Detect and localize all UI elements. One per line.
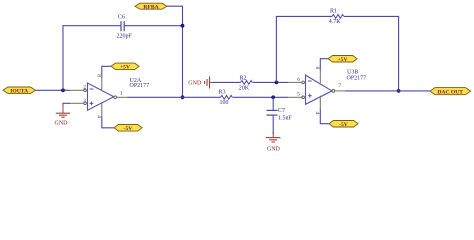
node RFBA-C6 junction [181,24,185,28]
pin 6 circle U3B [302,81,305,84]
plus sign U2A pin3 [90,102,94,106]
power port -5V (U2A) [114,125,142,133]
svg-text:OP2177: OP2177 [347,76,367,82]
svg-text:-5V: -5V [124,126,133,132]
power port +5V (U3B) [328,56,357,63]
svg-text:C7: C7 [278,108,285,114]
wire R1 to output drop [344,16,399,91]
svg-text:1: 1 [120,91,123,97]
pin 7 circle U3B output [332,90,335,93]
svg-text:DAC OUT: DAC OUT [437,89,463,95]
svg-text:RFBA: RFBA [143,4,158,10]
svg-text:4.7K: 4.7K [329,19,342,25]
resistor R1 [332,14,344,18]
minus sign U2A pin2 [90,88,94,90]
pin 3 circle U2A [84,102,87,105]
svg-text:4: 4 [96,115,102,118]
capacitor C6 [121,21,124,31]
pin 5 circle U3B [302,96,305,99]
svg-text:+5V: +5V [337,57,347,63]
svg-text:GND: GND [267,146,281,152]
op-amp U3B [306,75,333,104]
plus sign U3B pin5 [308,94,312,98]
svg-text:GND: GND [188,81,202,87]
svg-text:OP2177: OP2177 [130,83,150,89]
svg-text:1.5nF: 1.5nF [278,116,293,122]
wire U3B pin8 to +5V [319,70,321,83]
wire U2A pin8 to +5V [101,78,103,91]
pin 1 circle U2A output [114,96,117,99]
wire RFBA tag to vertical drop [167,6,183,97]
capacitor C7 [266,97,277,134]
svg-text:IOUTA: IOUTA [10,88,28,94]
power port -5V (U3B) [329,121,358,128]
svg-text:20K: 20K [239,86,250,92]
wire U3B output to DAC OUT [335,90,346,92]
node feedback junction upper [275,81,279,85]
svg-text:R1: R1 [330,8,337,14]
svg-text:7: 7 [339,83,342,89]
port DAC OUT [430,88,471,96]
svg-text:4: 4 [314,112,320,115]
svg-text:5: 5 [297,92,300,98]
port IOUTA [3,87,36,94]
svg-text:100: 100 [220,100,229,106]
node IOUTA junction [61,88,65,92]
svg-text:-5V: -5V [339,122,348,128]
wire U2A output through R3 run [117,96,128,98]
wire R2 to U3B pin6 [253,81,289,83]
wire C6 right side to RFBA vertical [124,25,182,27]
svg-text:R3: R3 [219,89,226,95]
wire GND to R2 [214,81,241,83]
svg-text:C6: C6 [118,15,125,21]
wire U3B pin4 to -5V [319,96,321,109]
ground GND under U2A [56,105,70,118]
svg-text:8: 8 [96,74,102,77]
node RFBA-output junction [181,95,185,99]
svg-text:+5V: +5V [120,65,130,71]
node C7 junction [271,95,275,99]
op-amp U2A [88,83,114,110]
wire U2A pin3 to ground [70,102,84,104]
wire R3 to U3B pin5 [233,96,289,98]
pin 2 circle U2A [84,89,87,92]
ground GND under C7 [266,132,280,142]
svg-text:R2: R2 [240,75,247,81]
resistor R3 [221,95,233,99]
minus sign U3B pin6 [308,80,312,82]
svg-text:220pF: 220pF [117,34,133,40]
svg-text:8: 8 [314,67,320,70]
wire IOUTA net to U2A pin2 [36,89,71,91]
power ground GND left of R2 [205,76,214,88]
wire feedback loop R1 [276,16,332,82]
port RFBA [135,3,167,10]
resistor R2 [241,81,253,85]
svg-text:GND: GND [55,121,69,127]
svg-text:2: 2 [83,85,86,91]
node output junction [397,89,401,93]
svg-text:6: 6 [297,77,300,83]
wire riser to C6 feedback [63,26,121,91]
wire U2A pin4 to -5V [101,103,103,116]
power port +5V (U2A) [111,63,139,70]
